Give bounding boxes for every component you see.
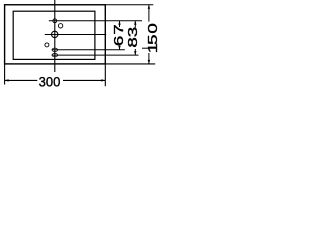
svg-text:83: 83 — [127, 27, 140, 48]
svg-text:1: 1 — [147, 43, 160, 54]
svg-text:300: 300 — [39, 74, 61, 90]
svg-text:50: 50 — [147, 22, 160, 45]
svg-text:67: 67 — [113, 23, 126, 46]
